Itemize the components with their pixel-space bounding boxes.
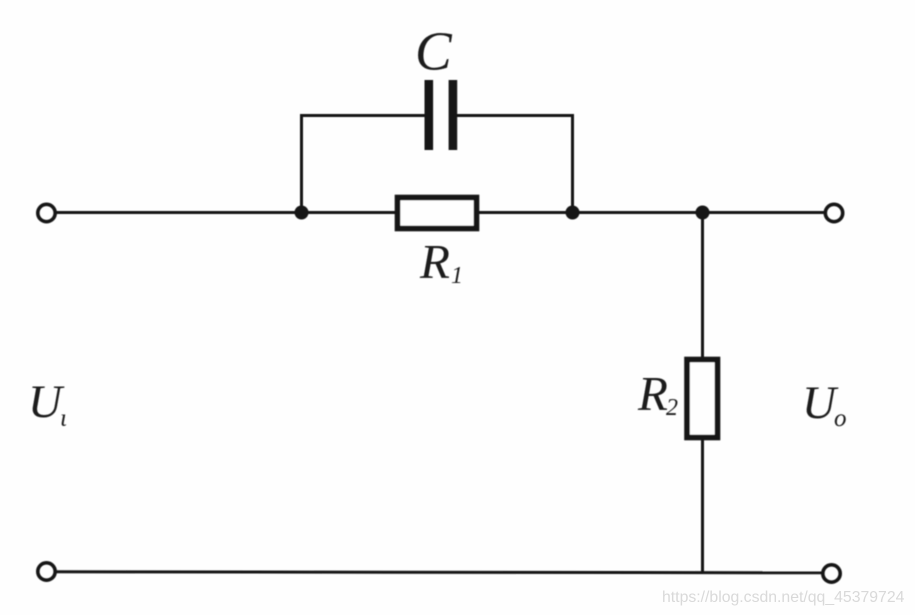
terminal output bottom-right [823, 565, 840, 582]
wire from node to R2 [701, 213, 704, 359]
terminal output top-right [825, 204, 842, 221]
resistor R2 [687, 360, 718, 438]
terminal input bottom-left [38, 563, 55, 580]
wire left branch of capacitor loop [302, 116, 426, 213]
resistor R1 [398, 198, 477, 229]
svg-text:R: R [637, 366, 668, 421]
node A junction left [295, 206, 309, 220]
svg-text:https://blog.csdn.net/qq_45379: https://blog.csdn.net/qq_45379724 [662, 589, 905, 606]
svg-text:ι: ι [60, 405, 67, 432]
svg-text:2: 2 [666, 395, 678, 421]
wire top main line [56, 211, 825, 214]
svg-text:o: o [834, 405, 847, 432]
wire right branch of capacitor loop [457, 116, 573, 213]
node C junction output branch [696, 206, 710, 220]
svg-text:1: 1 [451, 263, 463, 289]
terminal input top-left [38, 204, 55, 221]
svg-text:C: C [415, 21, 453, 82]
node B junction right [566, 206, 580, 220]
wire bottom return line [56, 572, 823, 573]
wire from R2 to bottom line [701, 438, 704, 572]
svg-text:R: R [419, 234, 450, 289]
capacitor C plates [425, 80, 434, 150]
